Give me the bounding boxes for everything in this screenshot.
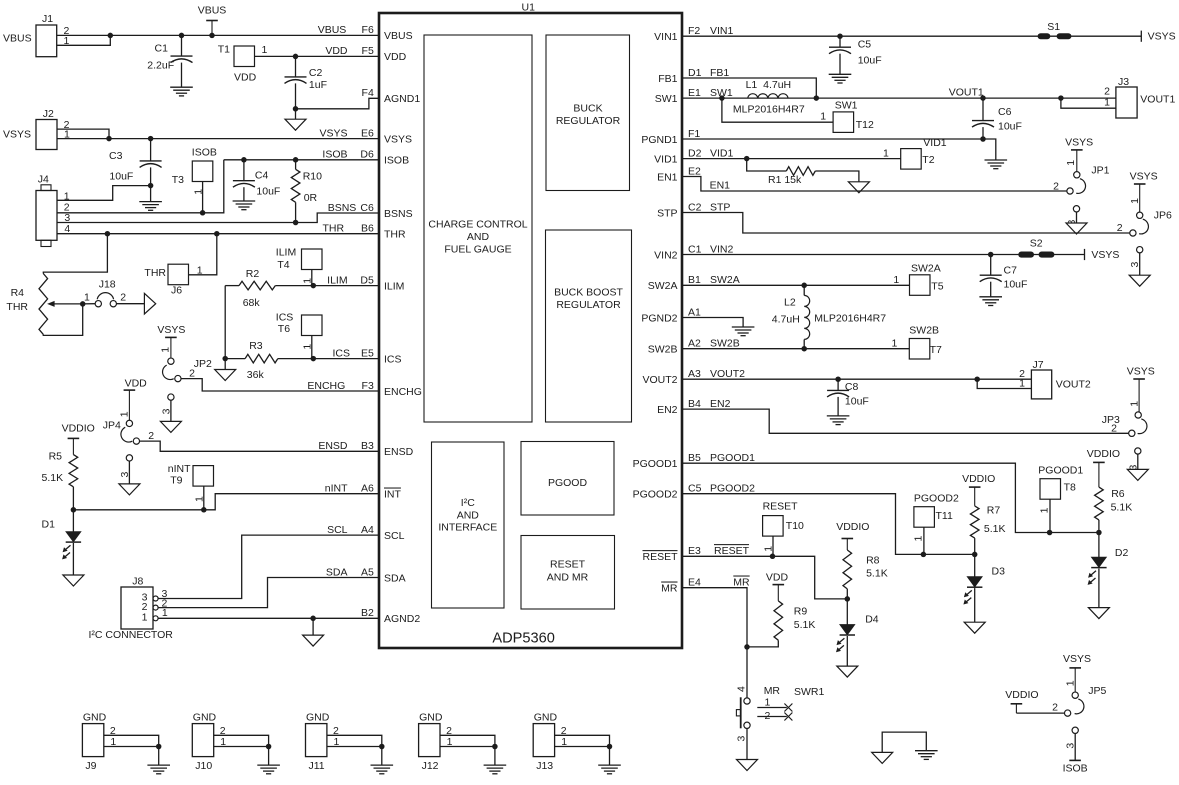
junction VSYS C3 xyxy=(148,136,154,142)
svg-text:PGOOD1: PGOOD1 xyxy=(633,458,678,470)
svg-text:STP: STP xyxy=(657,207,677,219)
svg-text:D4: D4 xyxy=(865,614,879,626)
svg-text:VID1: VID1 xyxy=(710,147,734,159)
svg-text:J3: J3 xyxy=(1118,76,1129,88)
svg-text:1: 1 xyxy=(159,347,171,353)
svg-text:10uF: 10uF xyxy=(858,55,882,67)
svg-text:EN2: EN2 xyxy=(710,398,731,410)
svg-text:C3: C3 xyxy=(109,150,123,162)
svg-text:J6: J6 xyxy=(171,285,182,297)
svg-text:SDA: SDA xyxy=(384,572,406,584)
resistor R1 xyxy=(747,159,787,171)
resistor R5 xyxy=(69,455,78,487)
svg-text:L2: L2 xyxy=(784,297,796,309)
ground R1 triangle xyxy=(848,182,869,193)
svg-text:5.1K: 5.1K xyxy=(794,619,816,631)
svg-text:2: 2 xyxy=(1052,702,1058,714)
svg-text:2: 2 xyxy=(1111,423,1117,435)
capacitor C4 xyxy=(243,160,245,181)
wire SW2A rail xyxy=(682,284,910,286)
terminator VSYS S2 xyxy=(1084,249,1086,260)
jumper JP2 pin3 xyxy=(168,394,174,400)
svg-text:JP6: JP6 xyxy=(1154,210,1172,222)
junction VIN2 C7 xyxy=(988,252,994,258)
junction J10 xyxy=(266,744,272,750)
ground D3 triangle xyxy=(964,622,985,633)
junction VBUS C1 xyxy=(179,33,185,39)
svg-text:J10: J10 xyxy=(195,760,212,772)
svg-text:CHARGE CONTROL: CHARGE CONTROL xyxy=(428,219,527,231)
svg-text:ILIM: ILIM xyxy=(384,280,404,292)
svg-text:BUCK: BUCK xyxy=(573,103,602,115)
svg-text:C6: C6 xyxy=(998,106,1012,118)
ground JP1 pin3 xyxy=(1066,223,1087,234)
svg-text:AND: AND xyxy=(467,231,490,243)
svg-text:REGULATOR: REGULATOR xyxy=(556,299,621,311)
svg-text:0R: 0R xyxy=(304,192,318,204)
svg-text:THR: THR xyxy=(323,223,345,235)
svg-text:B5: B5 xyxy=(688,452,701,464)
svg-text:C5: C5 xyxy=(858,39,872,51)
ground C5 xyxy=(829,73,852,75)
svg-text:JP1: JP1 xyxy=(1091,165,1109,177)
ground D1 triangle xyxy=(63,575,84,586)
junction T10 RESET xyxy=(770,554,776,560)
ground J9 xyxy=(158,747,160,766)
junction VIN1 C5 xyxy=(837,33,843,39)
svg-text:F4: F4 xyxy=(362,87,374,99)
svg-text:10uF: 10uF xyxy=(109,171,133,183)
svg-text:1uF: 1uF xyxy=(309,79,327,91)
svg-text:PGND1: PGND1 xyxy=(641,134,677,146)
U1 block RESET AND MR xyxy=(521,536,615,610)
wire R2 R3 common xyxy=(224,286,226,359)
junction R9 MR xyxy=(744,644,750,650)
capacitor C2 xyxy=(295,56,297,77)
svg-text:T6: T6 xyxy=(278,323,290,335)
junction VOUT2 C8 xyxy=(835,376,841,382)
jumper JP1 pin3 xyxy=(1073,206,1079,212)
svg-text:SW2A: SW2A xyxy=(710,274,740,286)
svg-text:VBUS: VBUS xyxy=(318,24,347,36)
test point T1 xyxy=(234,46,255,67)
svg-text:VBUS: VBUS xyxy=(384,30,413,42)
ground AGND2 triangle xyxy=(312,618,314,635)
svg-text:THR: THR xyxy=(144,267,166,279)
svg-text:AGND1: AGND1 xyxy=(384,93,420,105)
svg-text:C2: C2 xyxy=(309,67,323,79)
U1 block BUCK REGULATOR xyxy=(546,35,630,191)
wire J2 pin1 VSYS rail xyxy=(57,138,379,140)
svg-text:VSYS: VSYS xyxy=(319,127,347,139)
svg-text:C1: C1 xyxy=(688,243,702,255)
svg-text:J7: J7 xyxy=(1033,359,1044,371)
svg-text:J13: J13 xyxy=(536,760,553,772)
junction J12 xyxy=(492,744,498,750)
test point J6 xyxy=(168,264,189,285)
wire J11 pin2 xyxy=(327,735,382,746)
svg-text:MLP2016H4R7: MLP2016H4R7 xyxy=(733,104,805,116)
ground J10 xyxy=(268,747,270,766)
svg-text:EN1: EN1 xyxy=(710,179,731,191)
svg-text:VOUT1: VOUT1 xyxy=(949,87,984,99)
svg-text:MR: MR xyxy=(733,577,750,589)
junction R10 J4 pin3 rail xyxy=(293,220,299,226)
U1 block PGOOD xyxy=(521,442,614,516)
svg-text:5.1K: 5.1K xyxy=(866,568,888,580)
wire J12 pin2 xyxy=(440,735,495,746)
svg-text:STP: STP xyxy=(710,201,730,213)
svg-text:1: 1 xyxy=(765,696,771,708)
svg-text:J11: J11 xyxy=(309,760,325,772)
wire T10 pin1 xyxy=(772,536,774,556)
svg-text:VDD: VDD xyxy=(125,377,148,389)
wire J11 pin1 xyxy=(327,746,382,748)
svg-text:VBUS: VBUS xyxy=(198,5,227,17)
junction J11 xyxy=(379,744,385,750)
svg-text:BSNS: BSNS xyxy=(384,208,413,220)
svg-text:VDD: VDD xyxy=(234,72,257,84)
svg-text:R7: R7 xyxy=(987,505,1001,517)
svg-text:1: 1 xyxy=(262,44,268,56)
junction T6 ICS xyxy=(311,356,317,362)
svg-text:S2: S2 xyxy=(1030,238,1043,250)
svg-text:R6: R6 xyxy=(1111,488,1125,500)
svg-text:ILIM: ILIM xyxy=(327,274,347,286)
wire PGOOD2 xyxy=(682,494,975,555)
svg-text:INTERFACE: INTERFACE xyxy=(438,522,497,534)
svg-text:3: 3 xyxy=(736,736,748,742)
svg-text:GND: GND xyxy=(534,712,558,724)
ground D2 triangle xyxy=(1088,608,1109,619)
ground J12 xyxy=(494,747,496,766)
wire J4 pin2 ISOB branch xyxy=(57,160,224,213)
wire J8 pin2 SDA xyxy=(158,578,379,608)
svg-text:SW2A: SW2A xyxy=(911,263,941,275)
svg-text:L1 4.7uH: L1 4.7uH xyxy=(746,79,792,91)
junction R7 D3 xyxy=(972,552,978,558)
svg-text:1: 1 xyxy=(883,147,889,159)
svg-text:RESET: RESET xyxy=(642,551,678,563)
ground D4 triangle xyxy=(837,666,858,677)
svg-text:R5: R5 xyxy=(49,451,63,463)
svg-text:GND: GND xyxy=(193,712,217,724)
svg-text:ISOB: ISOB xyxy=(384,155,409,167)
svg-text:J1: J1 xyxy=(42,13,53,25)
svg-text:J9: J9 xyxy=(85,760,96,772)
wire SWR1 pin3 ground xyxy=(746,728,748,759)
wire VIN2 rail xyxy=(682,254,1085,256)
svg-text:T5: T5 xyxy=(931,281,943,293)
wire VIN1 rail xyxy=(682,35,1084,37)
svg-text:B3: B3 xyxy=(361,440,374,452)
svg-text:AND MR: AND MR xyxy=(547,572,589,584)
capacitor C8 xyxy=(837,379,839,390)
svg-text:2: 2 xyxy=(120,292,126,304)
svg-text:4: 4 xyxy=(64,223,70,235)
ground tie triangle xyxy=(872,752,893,763)
jumper JP3 pin3 xyxy=(1135,448,1141,454)
wire J13 pin2 xyxy=(555,735,610,746)
svg-text:1: 1 xyxy=(118,411,130,417)
svg-text:D1: D1 xyxy=(688,67,702,79)
svg-text:ENCHG: ENCHG xyxy=(384,386,422,398)
capacitor C7 xyxy=(990,255,992,276)
capacitor C5 xyxy=(839,36,841,47)
svg-text:ISOB: ISOB xyxy=(1063,763,1088,775)
ground J13 xyxy=(609,747,611,766)
svg-text:RESET: RESET xyxy=(763,501,799,513)
svg-text:C1: C1 xyxy=(155,43,169,55)
svg-text:FUEL GAUGE: FUEL GAUGE xyxy=(444,244,511,256)
wire JP2 pin2 ENCHG xyxy=(181,379,379,391)
wire PGND2 xyxy=(682,318,743,328)
svg-text:B1: B1 xyxy=(688,274,701,286)
svg-text:R10: R10 xyxy=(303,170,322,182)
svg-text:1: 1 xyxy=(893,274,899,286)
wire J8 pin1 AGND2 xyxy=(158,617,379,619)
svg-text:T2: T2 xyxy=(922,154,934,166)
svg-text:A6: A6 xyxy=(361,483,374,495)
svg-text:1: 1 xyxy=(1129,198,1141,204)
junction SW2A L2 xyxy=(801,283,807,289)
junction C3 J4 pin1 xyxy=(148,183,154,189)
wire T11 pin1 xyxy=(923,527,925,554)
svg-text:E2: E2 xyxy=(688,165,701,177)
svg-text:RESET: RESET xyxy=(550,559,586,571)
svg-text:EN1: EN1 xyxy=(657,171,678,183)
jumper JP4 pin3 xyxy=(126,455,132,461)
svg-text:THR: THR xyxy=(384,229,406,241)
junction C2 AGND1 xyxy=(293,106,299,112)
terminator ISOB xyxy=(1069,759,1081,761)
wire T3 pin1 xyxy=(202,182,204,213)
wire ISOB rail xyxy=(224,159,379,161)
wire J6 pin1 xyxy=(189,234,217,275)
svg-text:RESET: RESET xyxy=(714,545,750,557)
svg-text:5.1K: 5.1K xyxy=(42,472,64,484)
connector J1 xyxy=(36,25,57,57)
terminator VSYS S1 xyxy=(1140,31,1142,42)
svg-text:JP5: JP5 xyxy=(1088,685,1106,697)
resistor R7 xyxy=(970,506,979,538)
svg-text:GND: GND xyxy=(306,712,330,724)
svg-text:1: 1 xyxy=(1019,378,1025,390)
svg-text:ICS: ICS xyxy=(332,347,350,359)
svg-text:B6: B6 xyxy=(361,223,374,235)
svg-text:VOUT2: VOUT2 xyxy=(642,374,677,386)
svg-text:R9: R9 xyxy=(794,606,808,618)
svg-text:SW2B: SW2B xyxy=(648,344,678,356)
svg-text:PGOOD2: PGOOD2 xyxy=(633,489,678,501)
junction VOUT2 J7 xyxy=(974,376,980,382)
junction J2 pins xyxy=(106,136,112,142)
svg-text:R3: R3 xyxy=(249,340,263,352)
ground PGND2 xyxy=(732,326,755,328)
svg-text:VSYS: VSYS xyxy=(1065,137,1093,149)
jumper JP5 pin3 xyxy=(1072,727,1078,733)
test point T9 xyxy=(193,466,214,487)
svg-text:SWR1: SWR1 xyxy=(794,686,824,698)
junction T9 nINT xyxy=(201,507,207,513)
svg-text:PGOOD1: PGOOD1 xyxy=(1038,465,1083,477)
svg-text:VSYS: VSYS xyxy=(1148,31,1176,43)
svg-text:E3: E3 xyxy=(688,545,701,557)
junction VDD C2 xyxy=(293,54,299,60)
wire J10 pin1 xyxy=(214,746,269,748)
svg-text:VDDIO: VDDIO xyxy=(962,473,995,485)
svg-text:E5: E5 xyxy=(361,347,374,359)
svg-text:R1 15k: R1 15k xyxy=(768,174,802,186)
svg-text:A5: A5 xyxy=(361,566,374,578)
ground C7 xyxy=(979,296,1002,298)
junction THR J6 branch xyxy=(214,231,220,237)
svg-text:E4: E4 xyxy=(688,577,701,589)
potentiometer R4 xyxy=(43,234,107,274)
svg-text:D1: D1 xyxy=(42,519,56,531)
svg-text:FB1: FB1 xyxy=(658,73,677,85)
svg-text:T11: T11 xyxy=(936,510,953,522)
wire T1 pin1 to VDD rail xyxy=(255,55,380,57)
wire J2 pin2 xyxy=(57,129,109,139)
svg-text:T8: T8 xyxy=(1064,482,1076,494)
svg-text:D2: D2 xyxy=(688,147,702,159)
wire PGND1 rail xyxy=(682,138,983,140)
svg-text:J18: J18 xyxy=(99,278,116,290)
ground PGND1 xyxy=(983,139,996,160)
wire nINT to U1 xyxy=(73,494,379,510)
junction R5 D1 nINT xyxy=(71,507,77,513)
junction R8 D4 RESET xyxy=(845,596,851,602)
ground JP4 pin3 xyxy=(119,484,140,495)
test point T6 xyxy=(302,315,323,336)
wire J7 pin1 xyxy=(977,379,1031,388)
junction PGND1 C6 xyxy=(980,136,986,142)
test point T4 xyxy=(302,249,323,270)
svg-text:5.1K: 5.1K xyxy=(1111,502,1133,514)
svg-text:T1: T1 xyxy=(218,44,230,56)
svg-text:VDDIO: VDDIO xyxy=(836,521,869,533)
svg-text:ENCHG: ENCHG xyxy=(307,380,345,392)
wire FB1 xyxy=(682,78,816,98)
connector J4 battery xyxy=(36,191,57,241)
wire J4 pin1 to C3 node xyxy=(57,186,151,201)
off-page arrow THR xyxy=(144,293,155,314)
ground C1 xyxy=(170,86,193,88)
junction THR R4 branch xyxy=(105,231,111,237)
svg-text:2: 2 xyxy=(1053,180,1059,192)
svg-text:VSYS: VSYS xyxy=(1091,249,1119,261)
svg-text:D6: D6 xyxy=(360,149,374,161)
wire VOUT2 rail xyxy=(682,378,1031,380)
svg-text:U1: U1 xyxy=(522,2,536,14)
svg-text:E6: E6 xyxy=(361,127,374,139)
svg-text:ICS: ICS xyxy=(384,353,402,365)
svg-text:VIN2: VIN2 xyxy=(654,249,678,261)
resistor R8 xyxy=(843,550,852,589)
svg-text:FB1: FB1 xyxy=(710,67,729,79)
svg-text:ISOB: ISOB xyxy=(192,147,217,159)
svg-text:A2: A2 xyxy=(688,338,701,350)
svg-text:D3: D3 xyxy=(992,566,1006,578)
svg-text:10uF: 10uF xyxy=(845,396,869,408)
svg-text:VSYS: VSYS xyxy=(3,129,31,141)
svg-text:SW1: SW1 xyxy=(835,100,858,112)
svg-text:1: 1 xyxy=(892,338,898,350)
svg-text:SW1: SW1 xyxy=(655,93,678,105)
svg-text:VIN1: VIN1 xyxy=(654,31,678,43)
svg-text:A3: A3 xyxy=(688,368,701,380)
junction SW2B L2 xyxy=(801,346,807,352)
svg-text:C7: C7 xyxy=(1004,265,1018,277)
junction VBUS power tap xyxy=(209,33,215,39)
svg-text:SW2A: SW2A xyxy=(648,280,678,292)
svg-text:SW2B: SW2B xyxy=(909,325,939,337)
svg-text:5.1K: 5.1K xyxy=(984,523,1006,535)
wire VDDIO to JP5 pin2 xyxy=(1016,712,1064,714)
wire J4 pin4 THR rail xyxy=(57,233,379,235)
svg-text:4: 4 xyxy=(736,686,748,692)
svg-text:1: 1 xyxy=(913,536,925,542)
svg-text:INT: INT xyxy=(384,489,402,501)
wire T9 pin1 xyxy=(203,486,205,509)
svg-text:VIN1: VIN1 xyxy=(710,25,734,37)
wire JP4 pin2 ENSD xyxy=(139,441,379,451)
svg-text:J12: J12 xyxy=(422,760,439,772)
svg-text:VIN2: VIN2 xyxy=(710,243,734,255)
U1 block I2C AND INTERFACE xyxy=(432,442,505,608)
junction R6 D2 xyxy=(1096,530,1102,536)
svg-text:T7: T7 xyxy=(930,344,942,356)
wire SW1 rail xyxy=(682,97,1116,99)
svg-text:1: 1 xyxy=(1104,97,1110,109)
svg-text:2: 2 xyxy=(189,368,195,380)
svg-text:J4: J4 xyxy=(38,174,49,186)
wire J3 pin1 xyxy=(1061,98,1116,108)
op-amp U1 ADP5360 main IC body xyxy=(379,13,682,648)
wire JP5 pin3 ISOB xyxy=(1074,733,1076,760)
svg-text:VDD: VDD xyxy=(384,51,407,63)
wire AGND1 to U1 F4 xyxy=(296,98,380,109)
capacitor C6 xyxy=(982,98,984,121)
svg-text:VDDIO: VDDIO xyxy=(62,423,95,435)
wire S1 to VSYS xyxy=(1084,35,1141,37)
svg-text:MR: MR xyxy=(764,685,781,697)
svg-text:VID1: VID1 xyxy=(923,137,947,149)
wire J4 pin3 to BSNS xyxy=(57,213,379,223)
svg-text:J8: J8 xyxy=(132,576,143,588)
ground R2 R3 triangle xyxy=(224,359,226,370)
svg-text:2: 2 xyxy=(1117,222,1123,234)
svg-text:1: 1 xyxy=(84,292,90,304)
svg-text:JP4: JP4 xyxy=(103,420,121,432)
svg-text:A1: A1 xyxy=(688,306,701,318)
svg-text:PGOOD1: PGOOD1 xyxy=(710,452,755,464)
svg-text:MLP2016H4R7: MLP2016H4R7 xyxy=(814,313,886,325)
capacitor C1 xyxy=(181,35,183,56)
svg-text:PGOOD: PGOOD xyxy=(548,477,588,489)
svg-text:F1: F1 xyxy=(688,128,700,140)
svg-text:S1: S1 xyxy=(1047,21,1060,33)
resistor R2 xyxy=(225,285,239,287)
wire J9 pin1 xyxy=(104,746,159,748)
svg-text:nINT: nINT xyxy=(325,483,348,495)
svg-text:PGOOD2: PGOOD2 xyxy=(710,483,755,495)
ground tie earth xyxy=(915,750,938,752)
svg-text:VSYS: VSYS xyxy=(1063,653,1091,665)
svg-text:AND: AND xyxy=(457,509,480,521)
svg-text:1: 1 xyxy=(142,612,148,624)
